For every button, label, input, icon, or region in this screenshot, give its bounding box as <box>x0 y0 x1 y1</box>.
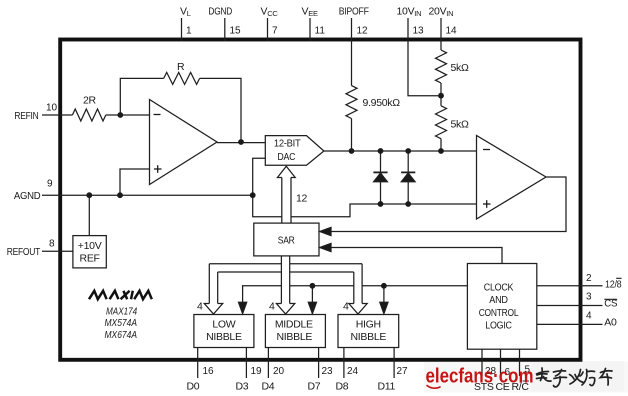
arrowhead into MIDDLE NIBBLE <box>308 302 316 313</box>
bus low shaft <box>208 264 210 304</box>
block MIDDLE NIBBLE <box>265 315 325 348</box>
svg-text:24: 24 <box>347 366 359 377</box>
svg-text:10: 10 <box>46 103 58 114</box>
pin 15 DGND tick <box>224 18 226 41</box>
svg-text:12-BIT: 12-BIT <box>274 137 301 149</box>
svg-text:4: 4 <box>343 301 349 313</box>
pin 10 REFIN wire <box>42 114 72 116</box>
diode D2 <box>407 151 409 172</box>
label pin 5 R/C <box>512 365 531 394</box>
wire clock to SAR <box>331 248 503 264</box>
svg-text:HIGH: HIGH <box>356 318 381 330</box>
pin 1 VL tick <box>181 18 183 41</box>
bus high shaft <box>353 272 355 304</box>
svg-text:REFIN: REFIN <box>14 110 38 122</box>
pin 2 wire <box>537 285 603 287</box>
label pin 6 CE <box>496 367 511 393</box>
label pin 24 D8 <box>336 366 359 393</box>
label VEE pin 11 <box>302 6 326 37</box>
node AGND to +input <box>117 192 123 198</box>
op-amp U1 minus sign <box>154 115 491 208</box>
bus arrowhead high <box>349 304 367 315</box>
svg-text:12: 12 <box>357 26 369 37</box>
svg-text:A0: A0 <box>604 316 617 328</box>
label REFIN pin 10 <box>14 103 57 123</box>
pin 6 CE wire <box>500 349 502 376</box>
node AGND to REF <box>86 192 92 198</box>
arrowhead into HIGH NIBBLE <box>380 302 388 313</box>
resistor 2R <box>72 109 105 121</box>
op-amp U1 <box>150 100 218 185</box>
pin 3 wire <box>537 305 603 307</box>
svg-text:5kΩ: 5kΩ <box>451 62 469 74</box>
svg-text:8: 8 <box>49 239 55 250</box>
node op-amp output <box>238 139 244 145</box>
svg-text:23: 23 <box>322 366 334 377</box>
svg-text:AND: AND <box>489 294 508 306</box>
svg-text:9: 9 <box>47 179 53 190</box>
wire op-amp output to DAC <box>217 142 265 144</box>
pin 14 20VIN wire <box>440 18 442 50</box>
label VL pin 1 <box>180 6 192 37</box>
svg-text:CONTROL: CONTROL <box>479 307 519 319</box>
bus arrow SAR to DAC head <box>277 166 295 177</box>
node AGND riser <box>250 192 256 198</box>
svg-text:5kΩ: 5kΩ <box>451 119 469 131</box>
svg-text:MX574A: MX574A <box>105 317 138 329</box>
svg-text:11: 11 <box>315 26 326 37</box>
svg-text:2R: 2R <box>83 95 97 107</box>
op-amp U1 plus sign <box>154 168 162 170</box>
logo MAXIM <box>89 291 152 299</box>
node D1 cathode <box>378 201 384 207</box>
svg-text:AGND: AGND <box>14 190 41 202</box>
svg-text:19: 19 <box>251 366 263 377</box>
wire AGND to +10V REF <box>88 195 90 235</box>
pin 19 D3 wire <box>245 348 247 379</box>
label AGND pin 9 <box>14 179 53 203</box>
svg-text:2: 2 <box>586 273 592 284</box>
svg-text:4: 4 <box>197 301 203 313</box>
svg-text:14: 14 <box>446 26 458 37</box>
wire 5k lower to node <box>440 139 442 151</box>
svg-text:15: 15 <box>230 26 242 37</box>
node D1 anode <box>378 148 384 154</box>
pin 28 STS wire <box>481 349 483 376</box>
svg-text:BIPOFF: BIPOFF <box>339 6 369 18</box>
svg-text:D3: D3 <box>236 381 249 393</box>
label BIPOFF pin 12 <box>339 6 369 37</box>
svg-text:20: 20 <box>273 366 285 377</box>
node middle nibble ctl <box>310 283 316 289</box>
watermark elecfans.com <box>426 365 534 388</box>
label pin 2 12/8 <box>586 273 622 291</box>
wire AGND riser to DAC <box>253 158 266 195</box>
wire BIPOFF to node <box>351 119 353 152</box>
wire comparator + return to AGND <box>253 195 282 217</box>
wire control to nibbles <box>243 286 282 303</box>
svg-text:NIBBLE: NIBBLE <box>206 331 242 343</box>
comparator U2 <box>477 136 547 220</box>
svg-text:1: 1 <box>186 26 192 37</box>
node D2 anode <box>405 148 411 154</box>
svg-text:REF: REF <box>80 253 100 265</box>
bus band top <box>209 263 281 265</box>
bus arrowhead middle <box>276 304 294 315</box>
comparator U2 plus sign <box>483 203 491 205</box>
label VCC pin 7 <box>261 6 279 37</box>
watermark background halo <box>424 362 628 393</box>
svg-text:12/8: 12/8 <box>605 279 622 291</box>
arrowhead into LOW NIBBLE <box>239 302 247 313</box>
pin 7 VCC tick <box>267 18 269 41</box>
wire solid arrow middle stub <box>311 286 313 303</box>
text MAX174 MX574A MX674A <box>105 306 138 341</box>
node REFIN junction <box>117 112 123 118</box>
label pin 16 D0 <box>187 366 215 393</box>
arrowhead into SAR top input <box>320 227 331 235</box>
node 5k bottom <box>438 148 444 154</box>
wire feedback right leg <box>200 78 241 142</box>
arrowhead into SAR lower input <box>320 243 331 251</box>
svg-text:9.950kΩ: 9.950kΩ <box>363 97 401 109</box>
pin 4 wire <box>537 323 603 325</box>
svg-text:SAR: SAR <box>278 235 295 247</box>
comparator U2 minus sign <box>483 149 490 151</box>
pin 16 D0 wire <box>197 348 199 379</box>
svg-text:13: 13 <box>413 26 425 37</box>
svg-text:MAX174: MAX174 <box>106 306 137 318</box>
label 20VIN pin 14 <box>429 6 458 37</box>
svg-text:MIDDLE: MIDDLE <box>275 318 313 330</box>
text CLOCK AND CONTROL LOGIC <box>479 281 519 331</box>
text 12-BIT DAC <box>274 137 301 163</box>
svg-text:elecfans·com: elecfans·com <box>426 365 534 387</box>
wire DAC output bus <box>324 150 477 152</box>
label 10VIN pin 13 <box>397 6 425 37</box>
label pin 23 D7 <box>308 366 334 393</box>
watermark chinese 电子发烧友 <box>537 368 613 387</box>
node high nibble ctl <box>381 283 387 289</box>
svg-text:12: 12 <box>296 193 308 205</box>
svg-text:LOGIC: LOGIC <box>485 320 512 332</box>
pin 8 REFOUT wire <box>42 250 73 252</box>
block CLOCK AND CONTROL LOGIC <box>467 264 536 350</box>
svg-text:REFOUT: REFOUT <box>7 246 41 258</box>
svg-text:NIBBLE: NIBBLE <box>277 331 313 343</box>
resistor 5k lower <box>436 106 447 139</box>
resistor R <box>164 72 200 84</box>
bus arrowhead low <box>204 304 222 315</box>
svg-text:D0: D0 <box>187 381 200 393</box>
wire comparator output <box>331 177 567 232</box>
label pin 27 D11 <box>378 366 409 393</box>
bus arrow SAR to DAC shaft <box>281 178 283 224</box>
pin 24 D8 wire <box>343 348 345 379</box>
pin 9 AGND wire <box>42 194 253 196</box>
svg-text:4: 4 <box>269 301 275 313</box>
svg-text:MX674A: MX674A <box>105 329 138 341</box>
block LOW NIBBLE <box>194 315 254 348</box>
text +10V REF <box>78 240 102 265</box>
wire noninverting input to AGND <box>120 169 150 195</box>
label REFOUT pin 8 <box>7 239 55 259</box>
svg-text:D4: D4 <box>262 381 275 393</box>
text LOW NIBBLE <box>206 318 242 343</box>
node D2 cathode <box>405 201 411 207</box>
wire feedback left leg <box>120 78 163 115</box>
block HIGH NIBBLE <box>338 315 399 348</box>
block +10V REF <box>73 236 106 268</box>
svg-text:4: 4 <box>586 310 592 321</box>
block SAR <box>254 223 319 256</box>
bus SAR to nibbles: center shaft <box>280 256 282 304</box>
pin 12 BIPOFF wire <box>351 18 353 86</box>
svg-text:D11: D11 <box>378 381 396 393</box>
outer IC boundary box <box>60 40 580 360</box>
pin 13 10VIN wire <box>408 18 441 96</box>
node 10V 20V junction <box>438 93 444 99</box>
bus band bottom <box>218 271 282 273</box>
text HIGH NIBBLE <box>351 318 387 343</box>
label pin 19 D3 <box>236 366 263 393</box>
svg-text:+10V: +10V <box>78 240 102 252</box>
svg-text:R: R <box>177 61 185 73</box>
wire solid arrow high stub <box>383 286 385 303</box>
label pin 3 CS <box>586 292 617 310</box>
diode D1 <box>380 151 382 172</box>
svg-text:DAC: DAC <box>277 151 295 163</box>
pin 11 VEE tick <box>309 18 311 41</box>
svg-text:16: 16 <box>203 366 215 377</box>
label pin 20 D4 <box>262 366 285 393</box>
pin 5 R/C wire <box>519 349 521 376</box>
wire 2R to op-amp inverting input <box>106 114 150 116</box>
text MIDDLE NIBBLE <box>275 318 313 343</box>
svg-text:7: 7 <box>272 26 278 37</box>
wire between 5k resistors <box>440 83 442 106</box>
resistor 5k upper <box>436 50 447 83</box>
svg-text:LOW: LOW <box>212 318 235 330</box>
svg-text:CLOCK: CLOCK <box>484 281 514 293</box>
svg-text:DGND: DGND <box>208 6 232 18</box>
block 12-BIT DAC <box>265 136 324 166</box>
node BIPOFF <box>349 148 355 154</box>
pin 20 D4 wire <box>267 348 269 379</box>
svg-text:D8: D8 <box>336 381 349 393</box>
label DGND pin 15 <box>208 6 241 37</box>
label pin 28 STS <box>474 366 497 393</box>
label pin 4 A0 <box>586 310 617 328</box>
resistor 9.950k <box>346 86 357 119</box>
pin 27 D11 wire <box>393 348 395 379</box>
svg-text:NIBBLE: NIBBLE <box>351 331 387 343</box>
pin 23 D7 wire <box>318 348 320 379</box>
svg-text:D7: D7 <box>308 381 321 393</box>
svg-text:27: 27 <box>397 366 409 377</box>
svg-text:3: 3 <box>586 292 592 303</box>
